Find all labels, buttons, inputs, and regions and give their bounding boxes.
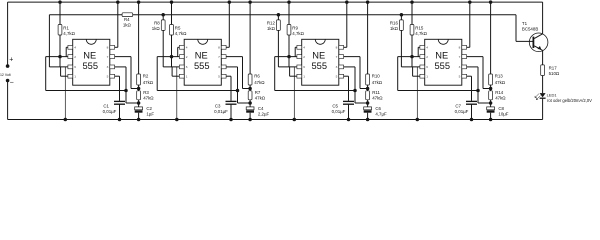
node ground junction stage 2 [175,118,179,122]
svg-text:0,01µF: 0,01µF [455,109,469,114]
svg-text:47kΩ: 47kΩ [495,80,506,85]
wire ground lead of IC4 [416,67,418,120]
svg-text:NE: NE [312,50,325,60]
node C4 ground junction [248,118,252,122]
wire pin 4 stub of IC2 [178,46,180,48]
pin 4 of U3 [297,45,302,49]
svg-text:8: 8 [107,46,109,50]
wire R3 top lead [138,89,140,91]
svg-text:1: 1 [303,75,305,79]
node threshold tie junction [236,89,240,93]
wire R17 to LED1 [542,76,544,94]
resistor R17 510Ω body [541,65,545,76]
op-amp U1 NE555 timer body [73,39,110,85]
wire trigger-threshold tie horizontal [157,90,237,92]
svg-text:47kΩ: 47kΩ [143,80,154,85]
wire R16 top lead [400,15,402,20]
resistor R4 1kΩ body (horizontal, in bus) [122,13,133,17]
wire ground lead of IC3 [293,67,295,120]
pin 8 of U4 [462,45,467,49]
node pin8 junction on V+ rail [468,0,472,4]
node C6 ground junction [366,118,370,122]
wire R3 bottom lead [138,100,140,103]
wire trigger-threshold tie down-leg [156,57,158,91]
resistor R3 47kΩ body [137,91,141,100]
svg-text:5: 5 [107,75,109,79]
svg-text:6: 6 [186,65,188,69]
svg-text:6: 6 [426,65,428,69]
pin 5 of U2 [221,74,226,78]
wire R15 top lead from V+ rail [410,0,414,4]
svg-text:6: 6 [74,65,76,69]
svg-text:rot oder gelb/20mA/2,0V: rot oder gelb/20mA/2,0V [547,98,592,103]
svg-text:BC548B: BC548B [522,27,538,32]
svg-text:2: 2 [303,55,305,59]
wire R12 top lead [277,15,279,20]
wire to pin 2 of IC1 [46,56,68,58]
pin 1 of U1 [68,74,73,78]
node R9 junction with trigger wire [287,55,291,59]
wire pin 5 of U2 to control cap [226,75,231,77]
svg-text:3: 3 [459,65,461,69]
wire pin 8 of U4 to V+ rail [467,46,470,48]
wire R12 bottom lead down to pin 2 [277,30,279,56]
node C1 ground junction [118,118,122,122]
pin 7 of U4 [462,55,467,59]
wire to pin 2 of IC3 [275,56,297,58]
svg-text:C6: C6 [375,106,381,111]
wire to pin 6 of IC1 [49,66,68,68]
resistor R9 4,7kΩ body [287,25,291,36]
svg-text:NE: NE [195,50,208,60]
node C5 ground junction [347,118,351,122]
svg-text:3: 3 [218,65,220,69]
pin 2 of U1 [68,55,73,59]
wire R1 bottom lead [59,35,61,67]
capacitor C7 0,01µF [466,100,477,102]
node R1 junction with trigger wire [58,55,62,59]
node timing junction [489,101,493,105]
svg-text:R10: R10 [372,73,381,78]
svg-text:510Ω: 510Ω [549,71,560,76]
svg-text:R2: R2 [143,73,149,78]
node C8 ground junction [489,118,493,122]
pin 7 of U3 [339,55,344,59]
node R16 top junction on bus [400,13,404,17]
wire to pin 2 of IC2 [157,56,179,58]
svg-text:1kΩ: 1kΩ [390,26,399,31]
pin 3 of U1 [110,65,115,69]
wire R8 bottom lead down to pin 2 [162,30,164,56]
svg-text:NE: NE [83,50,96,60]
svg-text:1µF: 1µF [146,112,154,117]
svg-text:4: 4 [186,46,188,50]
node R5 junction with trigger wire [170,55,174,59]
wire ground lead of IC1 [64,67,66,120]
node timing junction [137,101,141,105]
wire R2 bottom lead [138,85,140,89]
wire C4 bottom lead [249,113,251,120]
resistor R10 47kΩ body [366,74,370,85]
svg-text:C2: C2 [146,106,152,111]
wire bus to T1 base [515,15,517,42]
wire R1 top lead from V+ rail [58,0,62,4]
wire trigger-threshold tie horizontal [46,90,126,92]
svg-text:10µF: 10µF [498,112,508,117]
wire pin 5 of U3 to control cap [344,75,349,77]
resistor R15 4,7kΩ body [410,25,414,36]
pin 8 of U1 [110,45,115,49]
pin 3 of U2 [221,65,226,69]
svg-text:C8: C8 [498,106,504,111]
wire battery positive lead [7,2,9,66]
resistor R12 1kΩ body [277,20,281,31]
wire pin 8 of U2 to V+ rail [226,46,229,48]
pin 6 of U3 [297,65,302,69]
svg-text:555: 555 [311,61,327,71]
svg-text:12 Volt: 12 Volt [0,73,11,77]
wire ground lead of IC2 [176,67,178,120]
transistor T1 BC548B [529,33,548,52]
svg-text:C5: C5 [332,104,338,109]
wire R5 bottom lead [171,35,173,67]
resistor R8 1kΩ body [161,20,165,31]
pin 5 of U4 [462,74,467,78]
resistor R14 47kΩ body [489,91,493,100]
node ground junction stage 4 [416,118,420,122]
wire pin 7 of U3 to discharge node [344,56,360,58]
pin 6 of U1 [68,65,73,69]
svg-text:4: 4 [303,46,305,50]
wire R16 bottom lead down to pin 2 [400,30,402,56]
wire R7 bottom lead [249,100,251,103]
wire T1 collector [542,2,544,34]
wire R14 bottom lead [490,100,492,103]
wire R14 top lead [490,89,492,91]
svg-text:47kΩ: 47kΩ [143,95,154,100]
wire LED1 cathode to ground rail [542,98,544,119]
wire pin 4 stub of IC1 [66,46,68,48]
wire pin 7 of U1 to discharge node [115,56,131,58]
wire R9 top lead from V+ rail [287,0,291,4]
svg-text:LED1: LED1 [547,92,558,97]
pin 1 of U4 [420,74,425,78]
pin 5 of U1 [110,74,115,78]
capacitor C3 0,01µF [226,100,237,102]
pin 2 of U4 [420,55,425,59]
pin 4 of U4 [420,45,425,49]
LED1 light arrows [535,94,540,100]
wire C5 bottom lead [348,104,350,119]
svg-text:NE: NE [435,50,448,60]
wire to pin 2 of IC4 [398,56,420,58]
wire R8 top lead [162,15,164,20]
svg-text:47kΩ: 47kΩ [372,95,383,100]
node discharge junction [489,87,493,91]
svg-text:1kΩ: 1kΩ [267,26,276,31]
op-amp U3 NE555 timer body [302,39,339,85]
node threshold tie junction [476,89,480,93]
op-amp U4 NE555 timer body [425,39,462,85]
svg-text:1: 1 [186,75,188,79]
pin 4 of U1 [68,45,73,49]
pin 6 of U4 [420,65,425,69]
wire trigger-threshold tie down-leg [274,57,276,91]
svg-text:7: 7 [218,55,220,59]
capacitor C5 0,01µF [343,100,354,102]
svg-text:8: 8 [459,46,461,50]
wire stage 1 feed from bus down to pin 2 [48,15,50,67]
svg-text:5: 5 [218,75,220,79]
wire pin 8 of U3 to V+ rail [344,46,347,48]
node C7 ground junction [470,118,474,122]
wire to pin 6 of IC4 [401,66,420,68]
capacitor C1 0,01µF [114,100,125,102]
node C3 ground junction [229,118,233,122]
wire R5 top lead from V+ rail [170,0,174,4]
wire pin 1 stub of IC2 [172,75,179,77]
capacitor C2 electrolytic 1µF [138,103,140,107]
wire C2 bottom lead [138,113,140,120]
node discharge junction [248,87,252,91]
svg-text:R15: R15 [415,25,424,30]
pin 3 of U4 [462,65,467,69]
pin 6 of U2 [179,65,184,69]
resistor R1 4,7kΩ body [58,25,62,36]
wire C8 bottom lead [490,113,492,120]
node discharge junction [366,87,370,91]
wire R10 top lead from V+ rail [366,0,370,4]
wire pin 5 of U4 to control cap [467,75,472,77]
svg-text:555: 555 [434,61,450,71]
svg-text:R7: R7 [255,90,261,95]
svg-text:6: 6 [303,65,305,69]
wire battery negative lead [7,81,9,120]
wire R11 bottom lead [367,100,369,103]
wire pin 6 of U2 down to timing node [226,66,237,68]
wire trigger-threshold tie horizontal [275,90,355,92]
resistor R11 47kΩ body [366,91,370,100]
node pin8 junction on V+ rail [228,0,232,4]
svg-text:2: 2 [426,55,428,59]
wire pin 8 of U1 to V+ rail [115,46,118,48]
resistor R13 47kΩ body [489,74,493,85]
svg-text:4,7µF: 4,7µF [375,112,387,117]
pin 2 of U3 [297,55,302,59]
resistor R16 1kΩ body [400,20,404,31]
svg-text:R1: R1 [63,25,69,30]
svg-text:+: + [9,56,13,63]
wire trigger-threshold tie horizontal [398,90,478,92]
wire pin 5 of U1 to control cap [115,75,120,77]
pin 2 of U2 [179,55,184,59]
svg-text:R16: R16 [390,20,399,25]
svg-text:C4: C4 [258,106,264,111]
pin 8 of U2 [221,45,226,49]
pin 8 of U3 [339,45,344,49]
wire pin 6 of U3 down to timing node [344,66,355,68]
wire pin 4 stub of IC4 [418,46,420,48]
svg-text:4: 4 [426,46,428,50]
svg-text:R4: R4 [124,17,130,22]
svg-text:5: 5 [459,75,461,79]
svg-text:2: 2 [74,55,76,59]
capacitor C4 electrolytic 2,2µF [249,103,251,107]
svg-text:R17: R17 [549,66,558,71]
svg-text:0,01µF: 0,01µF [103,109,117,114]
node battery - terminal [6,79,10,83]
wire ground bottom rail [8,119,543,121]
svg-text:4,7kΩ: 4,7kΩ [63,31,75,36]
pin 1 of U2 [179,74,184,78]
wire R9 bottom lead [288,35,290,67]
node discharge junction [137,87,141,91]
svg-text:0,01µF: 0,01µF [332,109,346,114]
wire R10 bottom lead [367,85,369,89]
resistor R2 47kΩ body [137,74,141,85]
svg-text:8: 8 [336,46,338,50]
svg-text:7: 7 [107,55,109,59]
pin 1 of U3 [297,74,302,78]
resistor R5 4,7kΩ body [170,25,174,36]
node timing junction [366,101,370,105]
wire V+ top rail [8,1,543,3]
wire R13 bottom lead [490,85,492,89]
svg-text:R13: R13 [495,73,504,78]
wire pin 6 of U4 down to timing node [467,66,478,68]
wire trigger-threshold tie down-leg [45,57,47,91]
svg-text:8: 8 [218,46,220,50]
svg-text:7: 7 [459,55,461,59]
node pin8 junction on V+ rail [116,0,120,4]
svg-text:R6: R6 [254,73,260,78]
wire R15 bottom lead [411,35,413,67]
svg-text:4,7kΩ: 4,7kΩ [292,31,304,36]
svg-text:C1: C1 [103,104,109,109]
wire to pin 6 of IC2 [163,66,179,68]
svg-text:5: 5 [336,75,338,79]
wire T1 emitter to R17 [542,50,544,65]
svg-text:47kΩ: 47kΩ [372,80,383,85]
node ground junction stage 3 [293,118,297,122]
capacitor C6 electrolytic 4,7µF [367,103,369,107]
node battery + terminal [6,64,10,68]
pin 7 of U1 [110,55,115,59]
wire to pin 6 of IC3 [278,66,297,68]
op-amp U2 NE555 timer body [184,39,221,85]
svg-text:47kΩ: 47kΩ [255,95,266,100]
svg-text:R11: R11 [372,90,380,95]
LED1 diode symbol [540,93,546,97]
svg-text:R3: R3 [143,90,149,95]
svg-text:R8: R8 [154,20,160,25]
svg-text:2: 2 [186,55,188,59]
wire R11 top lead [367,89,369,91]
pin 3 of U3 [339,65,344,69]
svg-text:3: 3 [107,65,109,69]
node threshold tie junction [124,89,128,93]
capacitor C8 electrolytic 10µF [490,103,492,107]
svg-text:1kΩ: 1kΩ [123,22,132,27]
svg-text:555: 555 [194,61,210,71]
svg-text:3: 3 [336,65,338,69]
svg-text:R12: R12 [267,20,276,25]
wire pin 1 stub of IC3 [290,75,297,77]
wire pin 6 of U1 down to timing node [115,66,126,68]
wire C7 bottom lead [471,104,473,119]
node timing junction [248,101,252,105]
svg-text:4,7kΩ: 4,7kΩ [175,31,187,36]
node R15 junction with trigger wire [410,55,414,59]
svg-text:1kΩ: 1kΩ [152,26,161,31]
wire R13 top lead from V+ rail [489,0,493,4]
wire pin 1 stub of IC4 [413,75,420,77]
svg-text:−: − [10,80,14,87]
wire pin 7 of U2 to discharge node [226,56,242,58]
wire C1 bottom lead [119,104,121,119]
node C2 ground junction [137,118,141,122]
svg-text:47kΩ: 47kΩ [254,80,265,85]
svg-text:1: 1 [426,75,428,79]
svg-text:C7: C7 [455,104,461,109]
node ground junction stage 1 [64,118,68,122]
svg-text:47kΩ: 47kΩ [495,95,506,100]
wire pin 7 of U4 to discharge node [467,56,483,58]
svg-text:2,2µF: 2,2µF [258,112,270,117]
node R12 top junction on bus [277,13,281,17]
pin 5 of U3 [339,74,344,78]
wire R7 top lead [249,89,251,91]
svg-text:C3: C3 [215,104,221,109]
svg-text:4,7kΩ: 4,7kΩ [415,31,427,36]
pin 4 of U2 [179,45,184,49]
wire R2 top lead from V+ rail [137,0,141,4]
svg-text:R5: R5 [175,25,181,30]
svg-text:0,01µF: 0,01µF [214,109,228,114]
wire C3 bottom lead [230,104,232,119]
svg-text:R9: R9 [292,25,298,30]
svg-text:R14: R14 [495,90,504,95]
wire trigger-threshold tie down-leg [397,57,399,91]
node pin8 junction on V+ rail [345,0,349,4]
wire pin 1 stub of IC1 [61,75,68,77]
wire C6 bottom lead [367,113,369,120]
svg-text:4: 4 [74,46,76,50]
svg-text:1: 1 [74,75,76,79]
wire pin 4 stub of IC3 [295,46,297,48]
node R8 top junction on bus [161,13,165,17]
resistor R7 47kΩ body [248,91,252,100]
resistor R6 47kΩ body [248,74,252,85]
wire T1 emitter [534,46,542,51]
wire R6 bottom lead [249,85,251,89]
svg-text:7: 7 [336,55,338,59]
wire output bus [49,14,122,16]
wire R6 top lead from V+ rail [248,0,252,4]
node threshold tie junction [353,89,357,93]
svg-text:555: 555 [82,61,98,71]
pin 7 of U2 [221,55,226,59]
svg-text:T1: T1 [522,21,528,26]
